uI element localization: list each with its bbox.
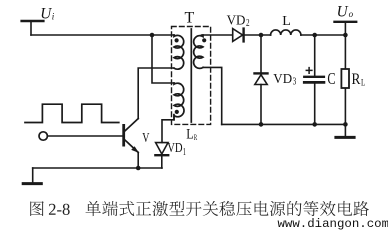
signal source square wave: [25, 104, 119, 122]
wire secondary bottom rail: [222, 123, 346, 125]
transistor V emitter stroke: [125, 140, 139, 153]
wire L to Uo junction: [301, 34, 346, 36]
wire C branch vertical: [314, 35, 316, 124]
wire base drive: [47, 135, 122, 137]
junction dot Uo node: [343, 33, 348, 38]
transistor V base bar: [122, 125, 125, 145]
wire LR bottom to VD1: [162, 115, 174, 143]
diode VD3 triangle: [255, 75, 267, 85]
signal source output circle: [39, 132, 47, 140]
wire VD2 cathode to L: [244, 34, 271, 36]
junction dot emitter-rail: [136, 166, 141, 171]
svg-text:L: L: [186, 127, 193, 143]
wire Uo lead: [344, 22, 346, 35]
transformer demag winding LR: [174, 83, 184, 120]
wire secondary top to VD2: [202, 34, 233, 36]
transistor V emitter arrow: [131, 146, 139, 153]
wire emitter down: [137, 152, 139, 168]
ground output side: [336, 124, 354, 137]
junction dot VD2 cathode node: [259, 33, 264, 38]
svg-text:VD: VD: [227, 13, 246, 28]
transformer secondary winding N2: [194, 35, 203, 68]
svg-text:3: 3: [293, 77, 297, 88]
svg-text:1: 1: [183, 147, 186, 158]
polarity dot primary: [175, 38, 179, 42]
junction dot C bottom: [312, 122, 317, 127]
wire junction A to demag winding feed: [152, 35, 174, 83]
diode VD1 cathode bar: [155, 154, 168, 156]
capacitor polarity plus: [306, 68, 312, 74]
wire top rail Ui to transformer primary: [31, 34, 174, 36]
svg-text:o: o: [349, 9, 354, 19]
junction dot VD3 bottom: [259, 122, 264, 127]
ground input side: [32, 168, 34, 183]
transistor V collector stroke: [125, 119, 139, 132]
svg-text:R: R: [194, 133, 198, 142]
wire Ui lead down: [30, 21, 32, 35]
diode VD3 cathode bar: [255, 72, 268, 74]
svg-text:VD: VD: [273, 72, 292, 87]
polarity dot LR: [175, 110, 179, 114]
node Uo output terminal bar: [335, 21, 357, 23]
svg-text:R: R: [352, 71, 361, 88]
diode VD2 triangle: [233, 29, 243, 42]
transformer core: [190, 29, 192, 122]
svg-text:T: T: [185, 9, 195, 26]
junction dot top rail: [150, 33, 155, 38]
svg-text:VD: VD: [167, 141, 182, 156]
wire emitter rail (bottom left): [33, 167, 162, 169]
junction dot L-C node: [312, 33, 317, 38]
transformer primary winding N1: [174, 35, 184, 69]
svg-text:L: L: [361, 77, 365, 87]
svg-text:L: L: [282, 14, 291, 29]
diode VD2 cathode bar: [242, 29, 244, 42]
wire VD3 branch vertical: [260, 35, 262, 124]
svg-text:U: U: [337, 3, 349, 20]
inductor L humps: [271, 30, 301, 35]
resistor RL body: [341, 69, 349, 88]
wire primary bottom to collector: [138, 68, 174, 119]
transformer T dashed box: [172, 27, 211, 125]
caption 图 2-8 单端式正激型开关稳压电源的等效电路: [30, 201, 369, 216]
diode VD1 triangle: [156, 143, 168, 154]
wire RL branch vertical: [344, 35, 346, 124]
junction dot RL bottom: [343, 122, 348, 127]
polarity dot secondary: [202, 38, 206, 42]
capacitor C plates: [304, 76, 324, 78]
svg-text:2: 2: [246, 18, 250, 29]
wire secondary bottom lead: [203, 67, 222, 124]
svg-text:C: C: [327, 69, 335, 88]
svg-text:V: V: [142, 131, 149, 146]
svg-text:U: U: [40, 6, 52, 23]
svg-text:www.diangon.com: www.diangon.com: [278, 217, 388, 231]
node Ui input terminal bar: [22, 20, 44, 22]
wire VD1 cathode to rail: [161, 155, 163, 168]
